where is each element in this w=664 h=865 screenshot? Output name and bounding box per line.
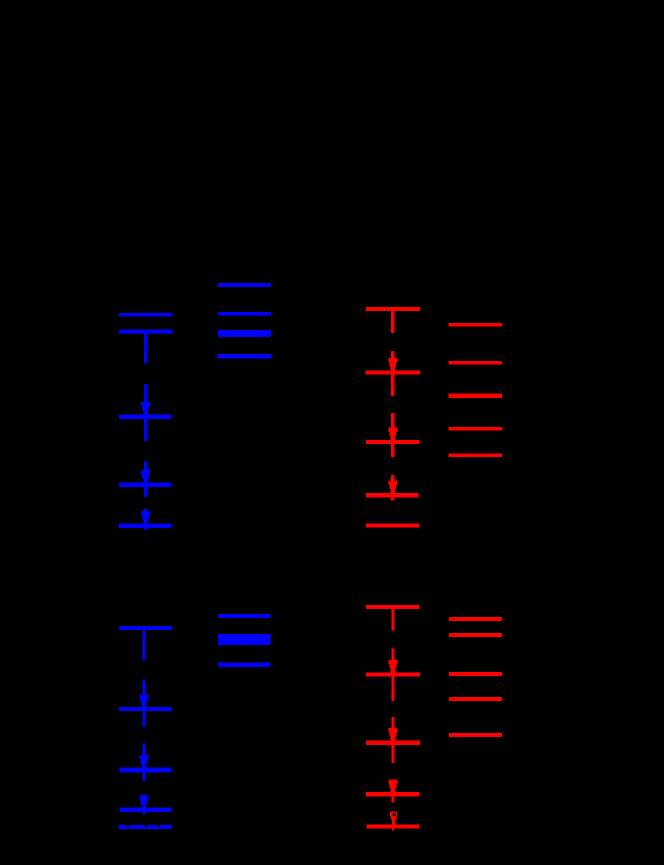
- blue level line E3: [119, 767, 171, 772]
- wire: blue arrow segment onto E3: [139, 744, 148, 768]
- blue level line A4: [119, 482, 172, 487]
- wire: red arrow onto G4: [389, 779, 398, 792]
- wire: red ring-head arrow onto G5: [390, 812, 397, 825]
- blue level line E1 (bottom panel top-left): [119, 626, 172, 630]
- wire: blue tiny stub below E4: [142, 812, 145, 815]
- red level line D1 (right column): [449, 323, 502, 327]
- red level line G2: [366, 672, 420, 676]
- wire: blue vertical segment A2 to gap: [144, 333, 147, 363]
- red level line H2: [449, 633, 502, 637]
- red level line D2: [449, 361, 502, 365]
- blue level line E4: [119, 807, 171, 812]
- blue thick level line B3: [218, 330, 271, 337]
- wire: blue arrow segment onto E2: [139, 680, 148, 707]
- wire: red tiny stub below C4: [391, 497, 394, 500]
- blue level line A5 (top-left bottom): [119, 524, 172, 528]
- red level line C5 (isolated bottom): [366, 523, 419, 527]
- red level line H3: [449, 672, 502, 676]
- wire: red vertical segment below C3: [391, 444, 394, 457]
- wire: blue vertical segment below E1: [142, 630, 145, 660]
- blue level line B1 (middle column top): [218, 283, 271, 287]
- red level line H4: [449, 697, 502, 701]
- blue level line A2 (top-left second): [119, 330, 172, 334]
- red level line C2: [366, 371, 420, 375]
- blue notched level line E5 (bottom): [119, 825, 173, 829]
- blue level line A3: [119, 414, 172, 419]
- wire: blue vertical segment below E2: [142, 711, 145, 727]
- wire: red vertical segment below G2: [391, 677, 394, 701]
- blue thick level line F2: [218, 634, 271, 645]
- wire: red arrow segment onto C4: [388, 475, 397, 493]
- blue level line B2: [218, 312, 271, 316]
- wire: red vertical segment below G1: [391, 609, 394, 630]
- red level line C1 (top): [366, 307, 420, 311]
- wire: red tiny stub below G5: [392, 828, 394, 830]
- red level line G4: [366, 792, 419, 797]
- red level line G3: [366, 740, 420, 745]
- blue level line B4: [218, 354, 272, 359]
- red level line D5: [449, 453, 502, 457]
- blue level line A1 (top-left upper): [119, 313, 172, 316]
- blue level line E2: [119, 707, 172, 711]
- wire: red stub below G4: [391, 797, 394, 803]
- red level line C3: [366, 440, 420, 444]
- red level line G1 (top): [366, 605, 420, 609]
- wire: red arrow segment onto C2: [388, 351, 397, 371]
- wire: red arrow segment onto G2: [389, 649, 398, 673]
- blue level line F3: [218, 663, 271, 667]
- wire: blue vertical segment below A3: [144, 419, 147, 441]
- wire: blue tiny stub below A5: [144, 528, 147, 530]
- wire: blue vertical segment below E3: [142, 772, 145, 781]
- wire: blue arrow segment onto A3: [141, 384, 150, 414]
- red level line G5 (bottom): [367, 825, 420, 829]
- red level line C4: [366, 493, 419, 497]
- wire: red vertical segment below G3: [391, 745, 394, 763]
- wire: red vertical segment below C2: [391, 375, 394, 397]
- red level line D4: [449, 427, 502, 431]
- wire: blue short arrow onto E4: [139, 795, 148, 808]
- wire: red vertical segment below C1: [391, 311, 394, 333]
- wire: blue vertical segment below A4: [144, 487, 147, 497]
- red level line D3: [449, 394, 502, 398]
- blue level line F1 (middle column top): [218, 614, 271, 618]
- wire: red arrow segment onto G3: [389, 717, 398, 740]
- red level line H1 (right column): [449, 617, 502, 621]
- red level line H5: [449, 733, 502, 737]
- wire: blue short arrow onto A5: [141, 509, 150, 523]
- wire: blue arrow segment onto A4: [141, 461, 150, 482]
- wire: red arrow segment onto C3: [388, 413, 397, 440]
